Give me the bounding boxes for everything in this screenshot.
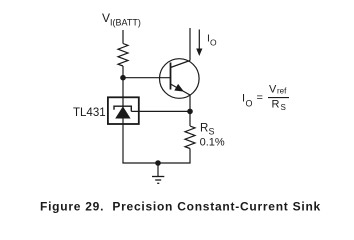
TL431 U1 triangle	[115, 106, 130, 118]
svg-text:O: O	[210, 38, 217, 48]
transistor Q1 collector	[171, 61, 191, 68]
wire ref	[131, 110, 190, 112]
svg-text:I(BATT): I(BATT)	[110, 18, 141, 28]
node Vbatt label	[102, 11, 141, 28]
TL431 U1 cathode bar	[114, 106, 131, 111]
transistor Q1 circle	[160, 59, 200, 99]
transistor Q1 emitter	[171, 84, 191, 95]
svg-text:R: R	[272, 99, 280, 111]
transistor Q1 base bar	[170, 63, 172, 90]
svg-text:=: =	[257, 92, 263, 104]
wire	[189, 149, 191, 164]
current arrow Io	[196, 30, 202, 57]
wire base	[123, 77, 171, 79]
equation Io = Vref/Rs	[242, 84, 289, 113]
wire bottom	[122, 162, 190, 164]
svg-text:S: S	[209, 127, 215, 137]
wire	[189, 111, 191, 126]
node A junction dot	[120, 75, 126, 81]
wire collector	[189, 28, 191, 61]
svg-text:V: V	[102, 11, 110, 25]
ground	[152, 163, 164, 183]
wire	[122, 66, 124, 163]
wire	[122, 30, 124, 44]
resistor R-bias	[118, 44, 128, 67]
resistor RS	[185, 126, 195, 149]
svg-text:0.1%: 0.1%	[200, 137, 225, 149]
label Io	[207, 33, 217, 48]
wire emitter	[189, 95, 191, 111]
node B junction dot	[187, 109, 193, 115]
svg-text:Figure 29. Precision Constant: Figure 29. Precision Constant-Current Si…	[40, 200, 321, 214]
label RS value	[200, 123, 225, 149]
svg-text:O: O	[246, 99, 253, 109]
transistor Q1 emitter arrow	[174, 84, 184, 92]
svg-text:R: R	[200, 123, 208, 135]
svg-text:ref: ref	[277, 87, 287, 96]
node C junction dot	[155, 160, 161, 166]
svg-text:TL431: TL431	[73, 107, 106, 119]
svg-text:V: V	[269, 84, 277, 96]
svg-text:S: S	[281, 103, 286, 112]
TL431 U1 box	[108, 97, 139, 124]
